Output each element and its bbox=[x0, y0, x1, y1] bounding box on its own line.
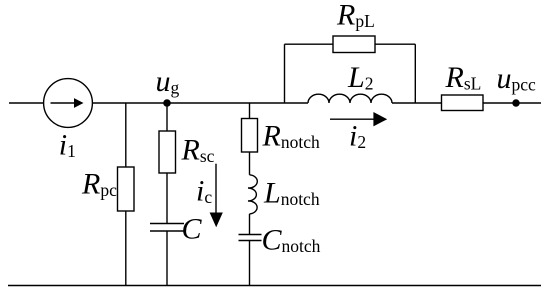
wire: RpL top wire right segment bbox=[375, 43, 415, 45]
wire: main rail from RsL to right edge bbox=[483, 102, 541, 104]
current source i1 arrow shaft bbox=[51, 102, 76, 104]
svg-text:Cnotch: Cnotch bbox=[262, 224, 321, 257]
wire: Rsc/C branch upper segment bbox=[166, 103, 168, 224]
current source i1 circle bbox=[44, 79, 93, 128]
svg-text:upcc: upcc bbox=[497, 62, 537, 95]
current arrow ic head bbox=[210, 213, 223, 228]
inductor Lnotch coil bbox=[248, 175, 257, 214]
wire: bottom return rail bbox=[8, 285, 541, 287]
svg-text:ug: ug bbox=[156, 65, 180, 98]
capacitor C bottom plate bbox=[150, 230, 184, 232]
wire: main rail from L2 to RsL body bbox=[392, 102, 442, 104]
svg-text:RpL: RpL bbox=[336, 0, 375, 31]
wire: RpL parallel loop left vertical bbox=[284, 44, 286, 103]
wire: Rsc/C branch lower segment bbox=[166, 231, 168, 286]
wire: RpL parallel loop right vertical bbox=[414, 44, 416, 103]
svg-text:Lnotch: Lnotch bbox=[263, 177, 320, 210]
wire: left input stub to current source bbox=[9, 102, 44, 104]
svg-text:C: C bbox=[182, 212, 203, 245]
current arrow i2 shaft bbox=[330, 118, 375, 120]
node upcc junction dot bbox=[512, 99, 519, 106]
svg-text:Rpc: Rpc bbox=[81, 168, 117, 201]
capacitor Cnotch top plate bbox=[239, 234, 262, 236]
node ug junction dot bbox=[163, 99, 171, 107]
inductor L2 coil bbox=[308, 94, 392, 103]
svg-text:i1: i1 bbox=[59, 129, 76, 162]
wire: RpL top wire left segment bbox=[285, 43, 334, 45]
svg-text:ic: ic bbox=[196, 175, 212, 208]
capacitor C top plate bbox=[150, 223, 184, 225]
svg-text:Rnotch: Rnotch bbox=[262, 120, 320, 153]
wire: notch branch lower segment bbox=[249, 241, 251, 286]
wire: notch branch upper segment bbox=[249, 103, 251, 175]
current source i1 arrow head bbox=[74, 98, 84, 108]
resistor RsL body bbox=[442, 95, 484, 111]
current arrow i2 head bbox=[373, 112, 387, 126]
svg-text:Rsc: Rsc bbox=[181, 134, 215, 167]
svg-text:i2: i2 bbox=[349, 120, 366, 153]
current arrow ic shaft bbox=[215, 164, 217, 214]
resistor Rsc body bbox=[159, 131, 176, 173]
wire: Rpc branch vertical bbox=[125, 103, 127, 286]
wire: notch branch middle segment below Lnotch bbox=[249, 214, 251, 235]
wire: main top rail from source to L2 bbox=[92, 102, 308, 104]
resistor RpL body bbox=[333, 36, 375, 53]
resistor Rnotch body bbox=[242, 119, 258, 153]
resistor Rpc body bbox=[118, 167, 135, 211]
capacitor Cnotch bottom plate bbox=[239, 240, 262, 242]
svg-text:RsL: RsL bbox=[445, 61, 482, 94]
svg-text:L2: L2 bbox=[347, 61, 373, 94]
